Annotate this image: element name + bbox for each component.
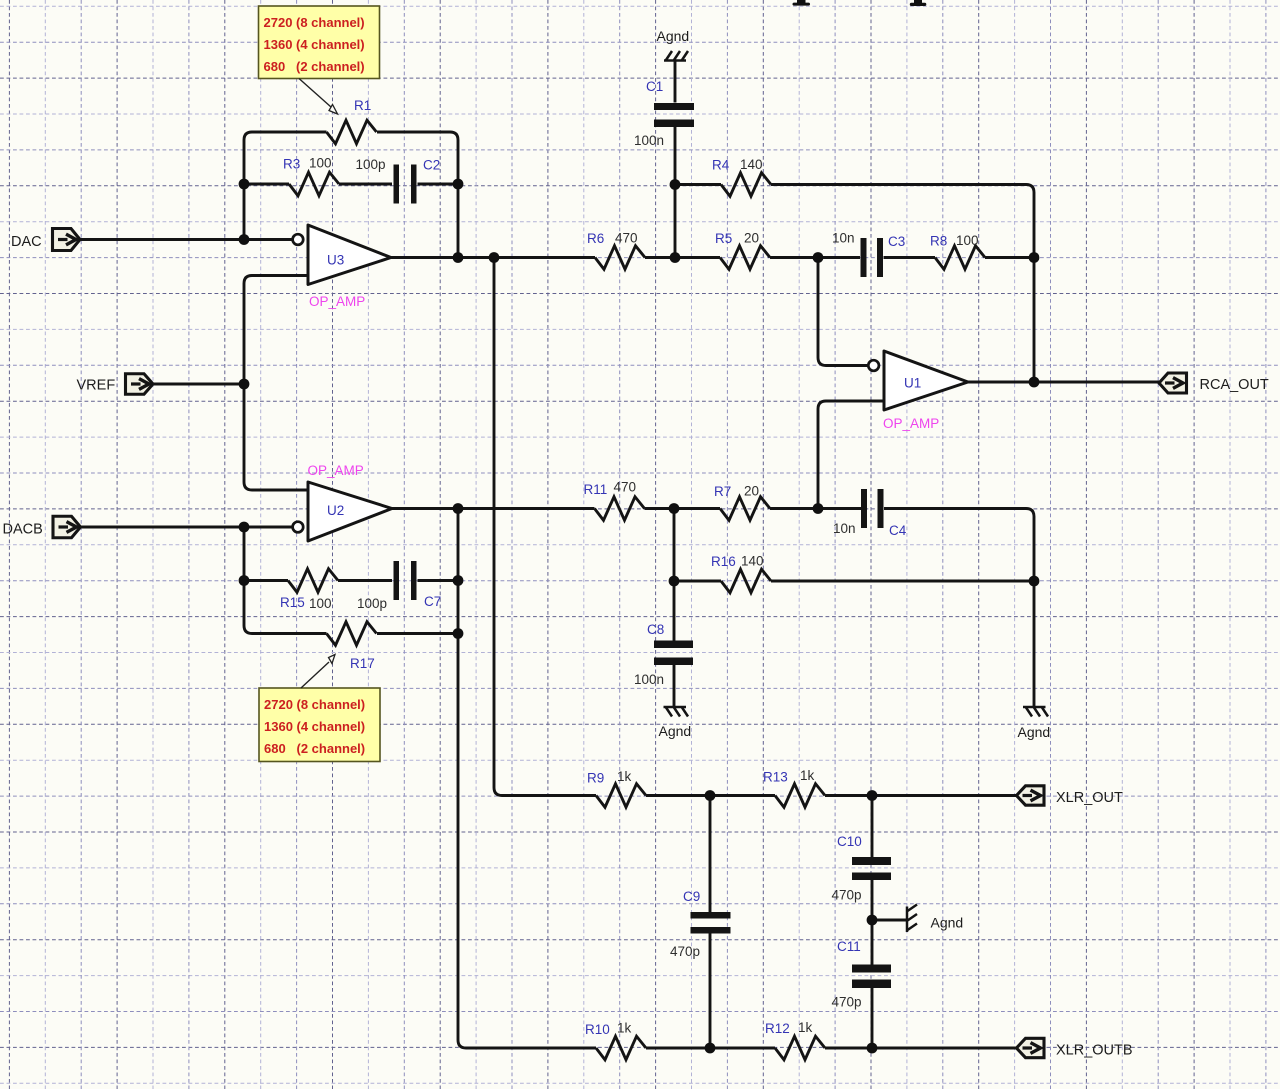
resistor R17 [327,622,377,671]
svg-text:470p: 470p [832,995,862,1010]
svg-text:1k: 1k [798,1020,813,1035]
svg-text:20: 20 [744,231,759,246]
svg-text:OP_AMP: OP_AMP [883,416,939,431]
wire R17 right segment [377,632,458,635]
resistor R4 140 [712,157,771,196]
svg-text:XLR_OUT: XLR_OUT [1056,790,1123,806]
svg-text:100: 100 [309,156,332,171]
svg-text:470p: 470p [670,944,700,959]
wire R1 loop right vertical down to U3 output [377,132,458,258]
wire U2 output vertical down to XLR_OUTB row [458,509,596,1049]
wire Agnd stub at C10/C11 midpoint [872,919,906,922]
capacitor C1 100n [634,79,694,148]
port VREF (input) [77,374,154,395]
wire R16 row [674,580,1034,583]
svg-text:C2: C2 [423,158,440,173]
svg-text:100: 100 [309,596,332,611]
wire U1 noninverting input [818,401,884,509]
svg-text:100n: 100n [634,672,664,687]
wire right Agnd drop [1033,581,1036,707]
resistor R8 100 [930,233,985,269]
wire DAC input to U3 inverting bubble [80,238,293,241]
svg-text:C4: C4 [889,523,907,538]
resistor R16 140 [711,554,771,593]
svg-text:20: 20 [744,484,759,499]
svg-text:U3: U3 [327,253,344,268]
svg-text:R12: R12 [765,1021,790,1036]
op-amp U1 [868,351,968,431]
svg-text:470: 470 [614,480,637,495]
svg-text:R1: R1 [354,98,371,113]
svg-text:RCA_OUT: RCA_OUT [1200,377,1269,393]
wire U3 output vertical down to R9 row [494,258,596,796]
resistor R7 20 [714,484,770,521]
wire U1 output to RCA_OUT [968,381,1159,384]
wire VREF input [153,383,245,386]
capacitor C2 100p [356,157,441,204]
svg-text:10n: 10n [833,521,856,536]
ground Agnd (bottom middle, at C8) [659,707,692,739]
svg-text:1360: 1360 [264,719,293,734]
svg-text:C1: C1 [646,79,663,94]
svg-text:R8: R8 [930,234,947,249]
ground Agnd (bottom right) [1018,707,1051,740]
svg-text:(8 channel): (8 channel) [296,15,365,30]
svg-text:100n: 100n [634,133,664,148]
svg-text:OP_AMP: OP_AMP [308,463,364,478]
svg-text:R3: R3 [283,157,300,172]
op-amp U2 [293,463,392,541]
resistor R6 470 [587,231,645,270]
svg-text:R17: R17 [350,656,375,671]
capacitor C4 10n [833,489,907,538]
svg-text:1k: 1k [617,769,632,784]
resistor R10 1k [585,1021,646,1060]
svg-text:100: 100 [956,233,979,248]
wire DACB input to U2 inverting bubble [80,526,293,529]
svg-text:R10: R10 [585,1022,610,1037]
wire R9/R13 row to XLR_OUT [646,794,1017,797]
resistor R5 20 [715,231,770,270]
port XLR_OUT (output) [1017,786,1124,806]
svg-text:U2: U2 [327,503,344,518]
capacitor C11 470p [832,939,892,1010]
svg-text:(4 channel): (4 channel) [297,719,366,734]
svg-text:470: 470 [615,231,638,246]
wire R4 row with corner down right vertical [675,185,1034,383]
wire DACB feedback vertical into R17 [244,527,327,634]
svg-text:680: 680 [264,741,286,756]
svg-text:470p: 470p [832,888,862,903]
svg-text:R5: R5 [715,231,732,246]
capacitor C8 100n [634,622,693,687]
wire U1 inverting input [818,258,869,366]
svg-text:R16: R16 [711,554,736,569]
svg-text:100p: 100p [356,157,386,172]
svg-text:U1: U1 [904,376,921,391]
wire C8 branch [673,509,676,708]
port DAC (input) [11,229,80,251]
svg-text:(4 channel): (4 channel) [296,37,365,52]
wire R15/C7 feedback row [244,579,458,582]
resistor R3 100 [283,156,339,196]
svg-text:C9: C9 [683,889,700,904]
svg-text:R15: R15 [280,595,305,610]
svg-text:R9: R9 [587,771,604,786]
wire U3 output row through R6 R5 C3 R8 [391,256,1034,259]
wire R10/R12 row to XLR_OUTB [646,1047,1017,1050]
resistor R13 1k [763,768,825,807]
op-amp U3 [293,225,391,309]
title text descenders (partial "p p" at top) [793,0,927,6]
svg-text:10n: 10n [832,231,855,246]
svg-text:R7: R7 [714,484,731,499]
capacitor C10 470p [832,834,892,903]
svg-text:1k: 1k [617,1021,632,1036]
svg-text:140: 140 [740,157,763,172]
svg-text:2720: 2720 [264,697,293,712]
svg-text:1k: 1k [800,768,815,783]
ground Agnd (top, at C1) [657,28,690,61]
svg-text:680: 680 [264,59,286,74]
wire Agnd to C1 to R4 node [674,61,677,258]
svg-text:XLR_OUTB: XLR_OUTB [1056,1043,1133,1059]
svg-text:Agnd: Agnd [657,28,690,44]
svg-text:R6: R6 [587,231,604,246]
svg-text:R4: R4 [712,158,730,173]
ground Agnd (right stub, at C10/C11) [907,905,963,933]
svg-text:DAC: DAC [11,234,42,250]
note box 1 (values for R1) [259,6,380,79]
svg-text:C7: C7 [424,594,441,609]
wire C9 branch [709,796,712,1049]
svg-text:(8 channel): (8 channel) [297,697,366,712]
note box 2 (values for R17) [259,688,380,762]
svg-text:R11: R11 [584,482,608,497]
port RCA_OUT (output) [1159,373,1269,393]
wire R3/C2 feedback row [244,183,458,186]
svg-text:1360: 1360 [264,37,293,52]
capacitor C3 10n [832,231,905,278]
resistor R15 100 [280,569,338,611]
resistor R1 [327,98,377,144]
svg-text:(2 channel): (2 channel) [296,59,365,74]
resistor R12 1k [765,1020,825,1060]
svg-text:C3: C3 [888,234,905,249]
svg-text:Agnd: Agnd [1018,724,1051,740]
svg-text:(2 channel): (2 channel) [297,741,366,756]
svg-text:140: 140 [741,554,764,569]
wire R1 loop left vertical (feedback to DAC node) [244,132,327,240]
capacitor C7 100p [357,561,441,611]
svg-text:VREF: VREF [77,378,116,394]
wire U2 output row through R11 R7 C4 with corner down [392,509,1034,582]
svg-text:Agnd: Agnd [659,723,692,739]
svg-text:C8: C8 [647,622,664,637]
wire U3 noninverting input / VREF vertical / U2 noninverting input [244,276,308,491]
capacitor C9 470p [670,889,731,959]
port XLR_OUTB (output) [1017,1038,1133,1058]
svg-text:100p: 100p [357,596,387,611]
svg-text:DACB: DACB [3,522,43,538]
svg-text:OP_AMP: OP_AMP [309,294,365,309]
svg-text:C10: C10 [837,834,862,849]
resistor R9 1k [587,769,646,807]
port DACB (input) [3,516,81,538]
svg-text:R13: R13 [763,770,788,785]
leader line from note box 2 to R17 [301,655,335,689]
svg-text:2720: 2720 [264,15,293,30]
svg-text:Agnd: Agnd [931,915,964,931]
wire C10/C11 branch [871,796,874,1049]
leader line from note box 1 to R1 [299,79,338,115]
svg-text:C11: C11 [837,939,861,954]
resistor R11 470 [584,480,645,521]
